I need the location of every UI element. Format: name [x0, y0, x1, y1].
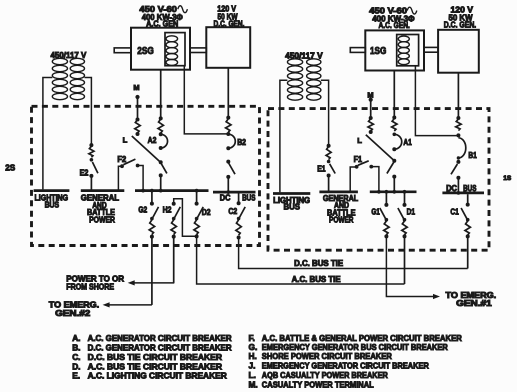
- main a.c. bus bar (right): [370, 190, 417, 193]
- label F2: [117, 155, 126, 164]
- wire B1 to d.c. bus: [457, 178, 461, 195]
- wire d.c. gen to breaker B2: [227, 68, 229, 118]
- breaker F1 left stub: [350, 165, 358, 191]
- label 50 KW (right): [449, 13, 473, 22]
- label A2: [148, 136, 157, 145]
- label GENERAL AND BATTLE POWER (right): [323, 194, 358, 224]
- svg-text:CASUALTY POWER TERMINAL: CASUALTY POWER TERMINAL: [262, 379, 374, 389]
- label 120 V (right): [451, 6, 474, 15]
- wire H2 to shore power line: [173, 237, 175, 283]
- label G1: [371, 207, 380, 216]
- wire terminal M down (right): [370, 100, 372, 118]
- svg-text:A.C. GENERATOR CIRCUIT BREAKER: A.C. GENERATOR CIRCUIT BREAKER: [88, 333, 232, 343]
- label L (left): [123, 136, 128, 145]
- label 2S: [5, 162, 15, 172]
- svg-text:POWER: POWER: [89, 215, 115, 224]
- svg-text:FROM SHORE: FROM SHORE: [66, 283, 114, 292]
- label 50 KW (left): [218, 12, 238, 21]
- label B2: [237, 138, 246, 147]
- label D.C. GEN. (right): [444, 21, 476, 30]
- breaker A1 blade: [387, 159, 396, 179]
- svg-text:DC: DC: [220, 193, 231, 202]
- wire a.c. gen 1SG to breaker A1: [393, 71, 395, 118]
- svg-text:D1: D1: [407, 207, 416, 216]
- switchboard 2S dashed enclosure: [32, 106, 260, 245]
- svg-text:BUS: BUS: [463, 184, 477, 193]
- a.c. generator 2SG box: [131, 28, 190, 70]
- svg-text:D.C. GEN.: D.C. GEN.: [444, 21, 476, 30]
- label D.C. GEN. (left): [214, 20, 245, 29]
- svg-text:DC: DC: [446, 184, 457, 193]
- svg-text:B2: B2: [237, 138, 246, 147]
- label 450/117 V (right): [285, 52, 323, 61]
- label POWER TO OR FROM SHORE: [66, 274, 124, 291]
- shaft coupling 2SG to d.c. generator (left): [190, 48, 206, 53]
- svg-text:A.: A.: [72, 333, 80, 343]
- label D1: [407, 207, 416, 216]
- svg-text:TO EMERG.: TO EMERG.: [49, 300, 99, 309]
- bus stub to breaker G2: [150, 189, 154, 206]
- label LIGHTING BUS (left): [35, 193, 69, 209]
- wire A2 to main bus: [160, 175, 162, 190]
- breaker L blade (left): [132, 136, 161, 162]
- label 450 V-60~ a.c. gen rating (right): [369, 7, 417, 16]
- breaker H2 overload element: [171, 220, 176, 239]
- svg-text:E1: E1: [317, 164, 326, 173]
- label M (right): [367, 91, 373, 100]
- a.c. generator 1SG box: [365, 30, 424, 70]
- label LIGHTING BUS (right): [273, 196, 310, 212]
- svg-text:2SG: 2SG: [137, 46, 154, 57]
- wire C2 to d.c. bus tie: [239, 238, 468, 269]
- label 400 KW-3phase (left): [142, 13, 183, 22]
- svg-text:1SG: 1SG: [370, 46, 386, 57]
- d.c. bus bar (left): [213, 191, 256, 194]
- wire C1 to d.c. bus tie: [467, 236, 469, 268]
- breaker C1 blade: [461, 208, 469, 222]
- wire transformer to lighting bus (left): [43, 78, 52, 190]
- lighting bus bar (left): [34, 189, 70, 192]
- breaker E1 blade: [327, 160, 336, 178]
- label 1S: [503, 175, 511, 182]
- wire D1 to a.c. bus tie: [404, 236, 406, 284]
- breaker B2 arc contact: [226, 134, 235, 150]
- breaker B1 blade: [451, 160, 460, 180]
- label M (left): [133, 83, 139, 92]
- emergency generator 1 line with arrow: [433, 294, 440, 299]
- svg-text:BUS: BUS: [242, 193, 256, 202]
- breaker L blade (right): [366, 135, 395, 161]
- label 120 V (left): [217, 5, 236, 14]
- label A.C. GEN. (right): [379, 21, 410, 30]
- svg-text:GEN.#1: GEN.#1: [456, 299, 492, 308]
- svg-text:G1: G1: [371, 207, 380, 216]
- label H2: [163, 205, 172, 214]
- transformer coils (right): [287, 59, 320, 100]
- label 400 KW-3phase (right): [372, 14, 415, 23]
- d.c. generator box (left): [206, 27, 250, 68]
- emergency generator 2 line with arrow: [103, 302, 152, 307]
- svg-text:C2: C2: [228, 207, 237, 216]
- breaker C1 overload element: [465, 221, 470, 239]
- label B1: [468, 151, 477, 160]
- overload element on M lead (right): [368, 116, 373, 134]
- transformer coils (left): [52, 58, 84, 99]
- shaft stub left of generator 2SG: [114, 48, 131, 53]
- label TO EMERG. GEN.#2: [49, 300, 99, 318]
- svg-text:2S: 2S: [5, 162, 15, 172]
- breaker A2 blade: [159, 160, 167, 177]
- wire E1 to general power bus: [328, 176, 330, 192]
- label DC BUS (left): [220, 193, 256, 202]
- wire d.c. gen to breaker B1: [457, 73, 459, 118]
- svg-text:L: L: [123, 136, 128, 145]
- svg-text:A2: A2: [148, 136, 157, 145]
- d.c. generator box (right): [438, 30, 479, 73]
- svg-text:F2: F2: [117, 155, 126, 164]
- label A.C. GEN (left): [146, 19, 178, 28]
- breaker D1 overload element: [402, 221, 407, 239]
- breaker A1 arc contact: [392, 134, 401, 151]
- wire transformer to lighting bus (right): [280, 80, 288, 192]
- breaker B2 blade: [226, 160, 235, 179]
- svg-text:B1: B1: [468, 151, 477, 160]
- svg-text:GEN.#2: GEN.#2: [55, 309, 91, 318]
- breaker F2 blade: [123, 159, 135, 165]
- bus stub to breaker D1: [403, 190, 407, 207]
- breaker G1 blade: [380, 208, 388, 222]
- wire E2 to general power bus: [90, 176, 92, 190]
- wire terminal M down (left): [137, 97, 139, 120]
- shaft coupling 1SG to d.c. generator (right): [424, 47, 438, 52]
- breaker D2 blade: [195, 207, 203, 221]
- breaker F1 right stub: [369, 165, 380, 194]
- breaker E1 overload element: [326, 144, 331, 160]
- shore power line with arrow: [128, 280, 175, 285]
- svg-text:L: L: [357, 136, 362, 145]
- exciter coil box inside 1SG: [397, 35, 419, 66]
- breaker A2 arc contact: [159, 134, 168, 150]
- breaker F1 blade: [358, 161, 369, 166]
- bus stub to breaker D2: [195, 189, 199, 206]
- d.c. bus bar (right): [442, 192, 484, 195]
- wire A1 to main bus: [392, 177, 396, 194]
- breaker F2 right stub: [136, 164, 143, 190]
- svg-text:B.: B.: [72, 343, 80, 353]
- overload element on M lead (left): [135, 118, 140, 137]
- svg-text:G2: G2: [138, 205, 147, 214]
- wire D2 to a.c. bus tie: [197, 236, 405, 284]
- label 450/117 V (left): [51, 51, 87, 60]
- svg-text:A1: A1: [403, 138, 412, 147]
- label C1: [450, 208, 459, 217]
- shaft stub left of generator 1SG: [350, 48, 365, 53]
- label C2: [228, 207, 237, 216]
- svg-text:A.C. LIGHTING CIRCUIT BREAKER: A.C. LIGHTING CIRCUIT BREAKER: [88, 371, 227, 381]
- breaker F2 left stub: [118, 164, 124, 189]
- label A1: [403, 138, 412, 147]
- svg-text:D2: D2: [202, 208, 211, 217]
- breaker B2 overload element: [226, 116, 231, 136]
- wire B2 to d.c. bus: [226, 177, 230, 194]
- breaker G2 blade: [150, 207, 158, 221]
- svg-text:1S: 1S: [503, 175, 511, 182]
- breaker C2 blade: [237, 207, 245, 220]
- lighting bus bar (right): [273, 192, 310, 195]
- main a.c. bus bar (left): [135, 189, 209, 193]
- label DC BUS (right): [446, 184, 477, 193]
- breaker D2 overload element: [194, 220, 199, 239]
- breaker B1 overload element: [456, 116, 461, 137]
- label 450 V-60~ a.c. gen rating (left): [139, 5, 187, 14]
- breaker B1 arc contact: [457, 138, 466, 160]
- svg-text:BUS: BUS: [45, 201, 60, 210]
- switchboard 1S dashed enclosure: [268, 109, 489, 251]
- svg-text:E.: E.: [72, 371, 80, 381]
- wire H2 top to bus tie node: [172, 199, 197, 237]
- label D.C. BUS TIE: [294, 259, 343, 268]
- wire 1SG exciter to breaker B1 node: [415, 66, 458, 136]
- legend column F-M: [249, 333, 462, 389]
- svg-text:M: M: [133, 83, 139, 92]
- breaker C2 overload element: [236, 220, 241, 240]
- label A.C. BUS TIE: [292, 275, 341, 284]
- svg-text:POWER: POWER: [329, 216, 354, 225]
- svg-text:M.: M.: [249, 379, 258, 389]
- wire 2SG exciter to breaker B2 node: [184, 66, 228, 134]
- wire a.c. gen 2SG to breaker A2: [160, 70, 162, 119]
- breaker A2 overload element: [158, 116, 163, 136]
- label D2: [202, 208, 211, 217]
- wire G1 to emergency generator 1: [386, 236, 433, 296]
- breaker D1 blade: [398, 208, 406, 222]
- svg-text:E2: E2: [80, 169, 89, 178]
- wire transformer to breaker E1: [321, 80, 329, 146]
- breaker E2 blade: [89, 158, 98, 178]
- exciter coil box inside 2SG: [165, 33, 185, 66]
- bus stub to breaker C2: [237, 193, 241, 205]
- svg-text:H2: H2: [163, 205, 172, 214]
- svg-text:A.C. GEN.: A.C. GEN.: [379, 21, 410, 30]
- label F1: [354, 155, 363, 164]
- label G2: [138, 205, 147, 214]
- general and battle power bus bar (left): [81, 189, 125, 192]
- legend column A-E: [72, 333, 231, 381]
- breaker G2 overload element: [149, 220, 154, 239]
- svg-text:D.C. BUS TIE: D.C. BUS TIE: [294, 259, 343, 268]
- breaker G1 overload element: [384, 221, 389, 239]
- breaker H2 blade: [172, 207, 180, 221]
- breaker E2 overload element: [89, 143, 94, 157]
- label L (right): [357, 136, 362, 145]
- casualty power terminal M (right): [369, 98, 373, 102]
- svg-text:A.C. BUS TIE: A.C. BUS TIE: [292, 275, 341, 284]
- breaker A1 overload element: [392, 116, 397, 137]
- wire transformer to breaker E2: [85, 78, 92, 146]
- label TO EMERG. GEN.#1: [446, 291, 497, 308]
- svg-text:BUS: BUS: [284, 203, 301, 212]
- svg-text:C1: C1: [450, 208, 459, 217]
- svg-text:F1: F1: [354, 155, 363, 164]
- wire G2 to emergency generator 2: [151, 237, 153, 305]
- bus stub to breaker G1: [384, 190, 388, 207]
- general and battle power bus bar (right): [319, 191, 358, 194]
- label E1: [317, 164, 326, 173]
- label E2: [80, 169, 89, 178]
- svg-text:D.C. GENERATOR CIRCUIT BREAKER: D.C. GENERATOR CIRCUIT BREAKER: [88, 343, 232, 353]
- casualty power terminal M (left): [135, 95, 139, 99]
- bus stub to breaker C1: [466, 194, 470, 206]
- label GENERAL AND BATTLE POWER (left): [81, 193, 119, 224]
